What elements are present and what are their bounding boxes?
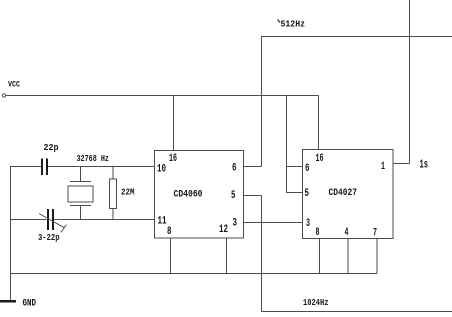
wire CD4060 pin 12 to ground xyxy=(226,238,228,274)
svg-text:1: 1 xyxy=(381,161,385,173)
svg-text:3: 3 xyxy=(306,218,310,230)
wire 1024Hz bottom line xyxy=(262,311,452,313)
capacitor C2 trimmer 3-22p xyxy=(48,209,53,230)
wire oscillator top (to CD4060 pin 10) xyxy=(11,166,42,168)
svg-text:10: 10 xyxy=(157,164,166,176)
svg-text:32768 Hz: 32768 Hz xyxy=(77,154,110,164)
svg-text:6: 6 xyxy=(232,163,237,175)
wire CD4027 pin 4 to ground xyxy=(347,239,349,274)
wire VCC rail xyxy=(6,95,319,97)
tick mark before 512Hz xyxy=(278,20,281,23)
trimmer arrow xyxy=(39,214,66,233)
wire VCC to CD4027 pins 6,5 (J/K tie) xyxy=(287,96,303,193)
svg-text:1s: 1s xyxy=(420,158,429,172)
svg-text:CD4060: CD4060 xyxy=(174,190,203,201)
svg-text:8: 8 xyxy=(167,226,172,238)
resistor R1 22M xyxy=(110,167,117,220)
wire CD4060 pin 6 stub (512Hz) xyxy=(244,166,262,168)
wire CD4060 pin 3 to CD4027 pin 3 xyxy=(244,222,303,224)
svg-text:4: 4 xyxy=(345,227,349,239)
svg-text:12: 12 xyxy=(219,224,228,236)
wire CD4027 pin 7 to ground xyxy=(376,239,378,274)
svg-text:22M: 22M xyxy=(121,187,135,198)
svg-text:16: 16 xyxy=(169,153,177,165)
ground symbol xyxy=(0,300,16,303)
wire CD4027 pin 6 stub xyxy=(287,166,303,168)
svg-text:1024Hz: 1024Hz xyxy=(303,298,329,308)
svg-text:5: 5 xyxy=(231,190,236,202)
wire oscillator bottom (to CD4060 pin 11) xyxy=(11,219,47,221)
svg-text:3: 3 xyxy=(233,218,238,230)
wire ground bus xyxy=(11,273,378,275)
svg-text:VCC: VCC xyxy=(8,80,20,90)
wire 1s vertical to top edge xyxy=(409,0,411,164)
wire CD4027 pin 8 to ground xyxy=(319,239,321,274)
VCC terminal xyxy=(2,94,5,97)
wire CD4027 pin 1 stub (1s) xyxy=(393,163,410,165)
wire CD4060 pin 8 to ground xyxy=(170,238,172,274)
wire CD4060 pin 5 stub (1024Hz) xyxy=(244,195,262,197)
wire 1024Hz vertical drop xyxy=(261,196,263,312)
svg-text:16: 16 xyxy=(316,153,324,165)
svg-text:5: 5 xyxy=(305,188,310,200)
svg-text:CD4027: CD4027 xyxy=(329,188,358,199)
svg-text:7: 7 xyxy=(373,228,377,240)
crystal Y1 32768 Hz xyxy=(68,167,93,220)
wire VCC to CD4027 pin 16 xyxy=(318,96,320,151)
svg-text:GND: GND xyxy=(23,299,37,310)
svg-text:8: 8 xyxy=(316,227,320,239)
wire 512Hz top line xyxy=(262,36,452,38)
svg-text:512Hz: 512Hz xyxy=(281,19,306,30)
IC U2 CD4027 xyxy=(303,150,394,240)
svg-text:11: 11 xyxy=(158,216,167,228)
IC U1 CD4060 xyxy=(155,151,244,239)
wire 512Hz vertical riser xyxy=(261,36,263,167)
svg-text:3-22p: 3-22p xyxy=(38,233,60,243)
svg-text:6: 6 xyxy=(305,163,310,175)
wire VCC to CD4060 pin 16 xyxy=(173,96,175,151)
svg-text:22p: 22p xyxy=(44,143,59,153)
capacitor C1 22p xyxy=(42,159,47,176)
wire left rail (oscillator return to ground) xyxy=(10,166,12,301)
